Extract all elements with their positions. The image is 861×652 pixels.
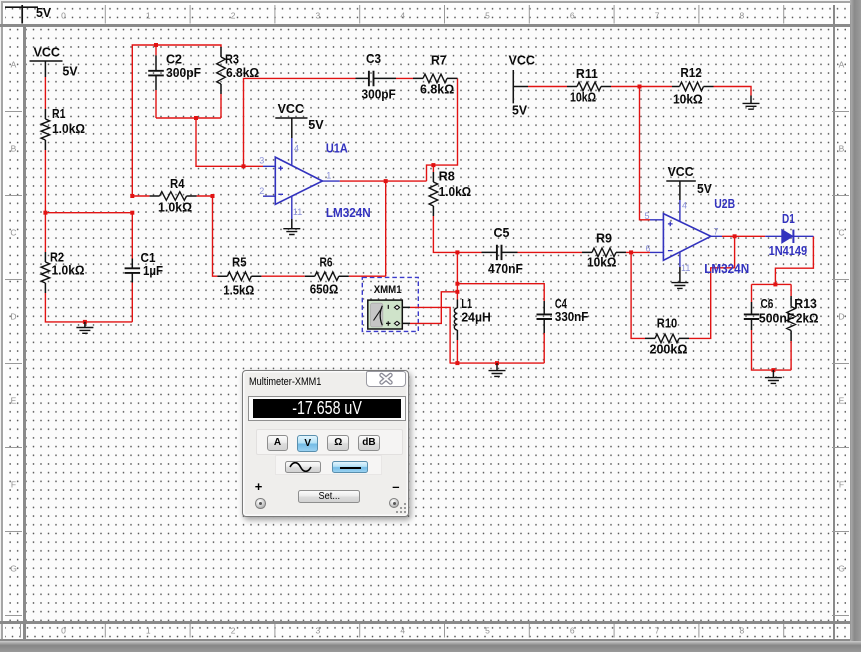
svg-text:7: 7 [714, 227, 719, 237]
svg-text:2: 2 [231, 11, 236, 21]
svg-text:R9: R9 [596, 231, 612, 246]
svg-text:3: 3 [316, 11, 321, 21]
svg-text:470nF: 470nF [488, 261, 523, 276]
svg-text:R4: R4 [170, 176, 185, 191]
svg-text:5: 5 [485, 11, 490, 21]
svg-text:4: 4 [294, 144, 299, 154]
svg-text:D: D [838, 312, 844, 322]
svg-text:1.0kΩ: 1.0kΩ [52, 263, 85, 278]
svg-text:5: 5 [645, 211, 650, 221]
svg-text:4: 4 [400, 626, 405, 636]
svg-text:LM324N: LM324N [326, 205, 371, 220]
svg-text:330nF: 330nF [555, 309, 588, 324]
svg-text:G: G [10, 564, 17, 574]
svg-text:R10: R10 [657, 316, 677, 331]
svg-text:0: 0 [61, 11, 66, 21]
svg-text:VCC: VCC [509, 53, 536, 68]
svg-text:2: 2 [231, 626, 236, 636]
svg-text:XMM1: XMM1 [374, 284, 402, 296]
svg-text:1µF: 1µF [143, 263, 163, 278]
svg-text:A: A [839, 60, 845, 70]
svg-text:300pF: 300pF [362, 87, 396, 102]
svg-text:VCC: VCC [668, 164, 695, 179]
svg-text:3: 3 [316, 626, 321, 636]
svg-text:8: 8 [740, 626, 745, 636]
svg-text:6.8kΩ: 6.8kΩ [420, 82, 454, 97]
svg-text:10kΩ: 10kΩ [587, 255, 616, 270]
svg-text:1.0kΩ: 1.0kΩ [158, 200, 192, 215]
svg-text:R13: R13 [794, 296, 817, 311]
svg-text:U1A: U1A [326, 141, 348, 156]
svg-text:200kΩ: 200kΩ [650, 342, 688, 357]
svg-text:24µH: 24µH [461, 309, 490, 324]
svg-text:R1: R1 [52, 106, 66, 121]
svg-text:5V: 5V [697, 181, 712, 196]
svg-text:11: 11 [293, 207, 302, 217]
svg-text:6.8kΩ: 6.8kΩ [226, 65, 259, 80]
svg-text:7: 7 [655, 11, 660, 21]
svg-text:U2B: U2B [714, 196, 735, 211]
svg-text:11: 11 [681, 263, 690, 273]
svg-text:300pF: 300pF [166, 65, 201, 80]
svg-text:2kΩ: 2kΩ [796, 311, 819, 326]
svg-text:1.5kΩ: 1.5kΩ [223, 283, 254, 298]
svg-text:650Ω: 650Ω [310, 282, 339, 297]
svg-text:500nF: 500nF [759, 311, 794, 326]
svg-text:C6: C6 [761, 296, 774, 311]
svg-text:1.0kΩ: 1.0kΩ [439, 184, 472, 199]
svg-text:1: 1 [146, 11, 151, 21]
svg-text:7: 7 [655, 626, 660, 636]
svg-text:10kΩ: 10kΩ [570, 90, 596, 105]
svg-text:5V: 5V [308, 117, 324, 132]
svg-text:B: B [839, 144, 845, 154]
svg-text:6: 6 [646, 244, 651, 254]
svg-text:VCC: VCC [34, 45, 61, 60]
svg-text:LM324N: LM324N [704, 261, 749, 276]
svg-text:C: C [10, 228, 16, 238]
svg-text:C: C [838, 228, 844, 238]
svg-text:6: 6 [570, 11, 575, 21]
svg-text:F: F [839, 480, 844, 490]
svg-text:5V: 5V [512, 103, 527, 118]
svg-text:R11: R11 [576, 66, 598, 81]
svg-text:1: 1 [326, 170, 331, 180]
svg-text:2: 2 [259, 186, 264, 196]
svg-text:10kΩ: 10kΩ [673, 92, 703, 107]
svg-text:C5: C5 [494, 225, 510, 240]
svg-text:F: F [11, 480, 16, 490]
svg-text:4: 4 [400, 11, 405, 21]
svg-text:8: 8 [740, 11, 745, 21]
svg-text:B: B [11, 144, 17, 154]
svg-text:E: E [11, 396, 17, 406]
svg-text:1: 1 [146, 626, 151, 636]
svg-text:1N4149: 1N4149 [769, 243, 808, 258]
svg-text:R8: R8 [439, 169, 455, 184]
svg-text:R12: R12 [680, 65, 701, 80]
svg-text:5V: 5V [36, 6, 52, 20]
svg-text:0: 0 [61, 626, 66, 636]
svg-text:G: G [838, 564, 845, 574]
svg-text:1.0kΩ: 1.0kΩ [52, 121, 85, 136]
svg-text:D: D [10, 312, 16, 322]
svg-text:R6: R6 [320, 255, 333, 270]
svg-text:6: 6 [570, 626, 575, 636]
svg-text:C3: C3 [366, 51, 381, 66]
svg-text:R5: R5 [232, 255, 247, 270]
svg-text:D1: D1 [782, 211, 795, 226]
svg-text:5V: 5V [63, 64, 78, 79]
svg-text:5: 5 [485, 626, 490, 636]
svg-text:3: 3 [259, 156, 264, 166]
svg-text:VCC: VCC [278, 101, 305, 116]
svg-text:R7: R7 [431, 53, 447, 68]
svg-text:4: 4 [682, 201, 687, 211]
svg-text:A: A [11, 60, 17, 70]
svg-text:E: E [839, 396, 845, 406]
